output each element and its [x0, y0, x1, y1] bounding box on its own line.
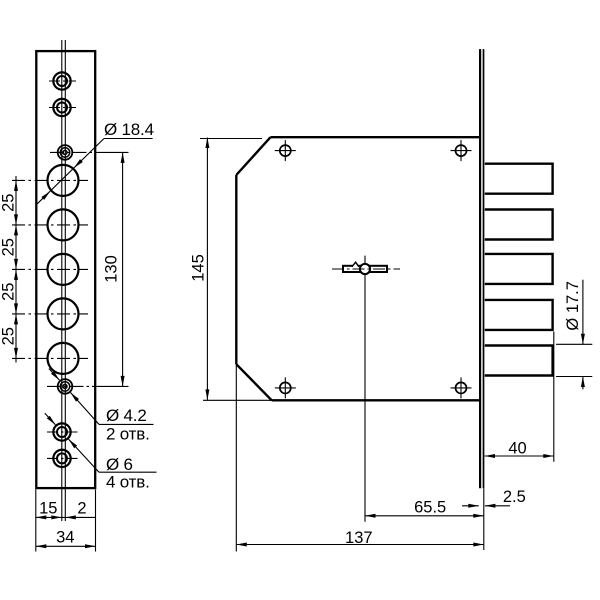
svg-text:2 отв.: 2 отв. [106, 425, 150, 444]
extension line bolts right [553, 332, 555, 462]
big hole 2 [48, 209, 79, 240]
dimension O17.7: top extension [556, 343, 592, 345]
dimension 137: line [236, 544, 483, 546]
dimension 65.5: arrows [365, 514, 376, 518]
dimension 145: top extension [200, 138, 262, 140]
dimension 40: arrows [485, 454, 496, 458]
keyhole vertical centerline / 65.5 extension [364, 256, 366, 522]
keyhole horizontal centerline [332, 268, 400, 270]
dimension 130: arrows [121, 152, 125, 163]
screw hole top-left cross [275, 150, 296, 152]
svg-text:130: 130 [102, 255, 120, 283]
svg-text:145: 145 [189, 254, 207, 282]
extension line body left bottom [235, 365, 237, 552]
bolt 4 [485, 300, 553, 330]
leader O6: upper stub [45, 413, 56, 425]
keyhole notch [352, 261, 359, 267]
hole O6 bottom 1 [53, 423, 70, 440]
bolt 2 [485, 210, 553, 240]
svg-text:Ø 18.4: Ø 18.4 [104, 120, 154, 139]
screw hole top-right cross [451, 150, 472, 152]
faceplate bend line 2 (vertical) [64, 40, 66, 521]
big hole 1 centerline [12, 179, 88, 181]
leader O6: underline [99, 471, 157, 473]
svg-text:25: 25 [0, 194, 18, 212]
bolt 1 [485, 164, 553, 194]
dimension 15: arrows [36, 515, 47, 519]
faceplate edge bar left line [479, 49, 481, 488]
extension line faceplate right bottom [483, 488, 485, 550]
svg-text:Ø 6: Ø 6 [106, 455, 133, 474]
big hole 4 centerline [12, 313, 88, 315]
hole O4.2 top centerline / 130 top extension [50, 151, 96, 153]
svg-text:25: 25 [0, 327, 18, 345]
dimension 34: arrows [36, 544, 47, 548]
dimension 2.5: left line and arrow [462, 505, 479, 507]
leader O4.2: underline [99, 423, 154, 425]
big hole 5 centerline [12, 357, 88, 359]
svg-text:34: 34 [56, 528, 74, 546]
svg-text:40: 40 [508, 439, 526, 457]
big hole 3 [48, 254, 79, 285]
dimension O17.7: line [582, 280, 584, 345]
dimension 145: arrows [205, 138, 209, 149]
screw hole bottom-left cross [275, 387, 296, 389]
dimension O17.7: bottom extension [556, 376, 592, 378]
dimension O17.7: arrows [581, 334, 585, 345]
screw hole bottom-right cross [451, 387, 472, 389]
hole O6 bottom 2 centerline [47, 457, 78, 459]
big hole 3 centerline [12, 268, 88, 270]
screw hole top-right [456, 145, 467, 156]
hole O6 top 1 centerline [49, 80, 76, 82]
faceplate edge bar right line [483, 49, 485, 488]
leader O18.4: arrows [73, 159, 83, 169]
svg-text:2.5: 2.5 [503, 488, 526, 506]
extension line plate bottom left [35, 490, 37, 552]
faceplate outline [36, 51, 95, 488]
keyhole circle [360, 264, 370, 274]
leader O4.2: upper stub [49, 369, 60, 381]
dimension chain 25: line [15, 176, 17, 363]
screw hole bottom-right [456, 382, 467, 393]
svg-text:25: 25 [0, 283, 18, 301]
leader O18.4: diagonal line [36, 139, 104, 206]
big hole 2 centerline [12, 224, 88, 226]
dimension 40: line [485, 455, 554, 457]
hole O6 top 2 [53, 99, 70, 116]
svg-text:Ø 17.7: Ø 17.7 [564, 281, 582, 331]
hole O4.2 top [58, 145, 73, 160]
dimension 65.5: line [365, 515, 484, 517]
leader O18.4: underline [104, 138, 153, 140]
hole O4.2 bottom centerline / 130 bottom extension [47, 385, 96, 387]
bolt 5 [485, 346, 553, 376]
big hole 5 [48, 343, 79, 374]
extension line plate bottom right [95, 490, 97, 552]
svg-text:15: 15 [39, 500, 57, 518]
hole O6 bottom 2 [53, 450, 70, 467]
dimension 145: line [206, 138, 208, 400]
hole O6 top 2 centerline [49, 107, 76, 109]
dimension 145: bottom extension [203, 399, 272, 401]
dimension 137: arrows [236, 543, 247, 547]
dimension 130: line [122, 152, 124, 386]
dimension 15/2: line [36, 516, 96, 518]
svg-text:2: 2 [77, 500, 86, 518]
big hole 1 (O18.4) [48, 165, 79, 196]
dimension 34: line [36, 545, 96, 547]
lock body outline [236, 137, 480, 400]
leader O4.2: lower line to text [71, 393, 100, 425]
dimension 2.5: right line and arrow [485, 505, 510, 507]
svg-text:137: 137 [345, 529, 373, 547]
dimension chain 25: arrows [14, 180, 18, 191]
screw hole bottom-left [280, 382, 291, 393]
hole O6 bottom 1 centerline [47, 431, 78, 433]
hole O6 top 1 [53, 72, 70, 89]
svg-text:25: 25 [0, 238, 18, 256]
dimension 2: arrow [65, 515, 76, 519]
big hole 4 [48, 298, 79, 329]
leader O6: lower line to text [69, 439, 99, 472]
svg-text:65.5: 65.5 [414, 499, 446, 517]
screw hole top-left [280, 145, 291, 156]
svg-text:Ø 4.2: Ø 4.2 [106, 406, 147, 425]
hole O4.2 bottom [58, 379, 73, 394]
keyhole bar [343, 266, 387, 272]
svg-text:4 отв.: 4 отв. [106, 473, 150, 492]
bolt 3 [485, 254, 553, 284]
faceplate bend line 1 (vertical) [61, 40, 63, 521]
